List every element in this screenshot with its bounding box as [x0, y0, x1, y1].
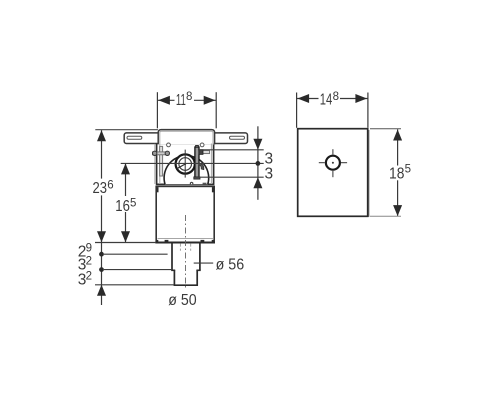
label 2_9: [78, 242, 92, 260]
svg-text:11: 11: [176, 92, 186, 109]
screw hole right: [200, 143, 204, 147]
svg-text:14: 14: [320, 92, 333, 109]
label 3_2 lower: [78, 270, 92, 288]
left bracket strip: [160, 146, 163, 176]
label 3_2 upper: [78, 255, 92, 273]
rail slot right: [230, 136, 245, 139]
plate circle: [326, 156, 340, 170]
bottom corner mark left: [156, 240, 158, 242]
svg-text:23: 23: [93, 180, 108, 197]
box inner bottom line: [158, 237, 213, 239]
tank left outer seam: [154, 144, 156, 184]
svg-text:18: 18: [389, 165, 404, 182]
small block on step: [203, 183, 207, 185]
flush valve outer circle: [176, 154, 195, 173]
svg-text:5: 5: [130, 197, 136, 209]
access plate: [298, 129, 368, 217]
plate top extension lines: [297, 93, 368, 128]
bottom corner mark right: [212, 240, 214, 242]
right dim line 3 upper: [198, 149, 264, 151]
bottom tab left: [165, 240, 169, 242]
dimension line 11_8: [157, 96, 216, 105]
ref line collar top: [95, 129, 158, 131]
plate right extension lines: [370, 129, 401, 217]
svg-text:ø 50: ø 50: [168, 292, 197, 309]
siphon dome: [164, 156, 209, 185]
label 11_8: [176, 91, 193, 109]
svg-text:6: 6: [107, 180, 113, 192]
ref line outlet step: [104, 269, 172, 271]
ref line valve axis: [121, 162, 264, 164]
dimension line 18_5: [393, 129, 402, 216]
label 18_5: [389, 164, 411, 183]
label 16_5: [115, 197, 136, 214]
svg-text:8: 8: [333, 91, 339, 103]
svg-text:5: 5: [405, 164, 411, 176]
box bottom edge bold: [155, 242, 215, 244]
outlet pipe d50: [174, 270, 197, 285]
plate right edge shadow: [368, 130, 370, 217]
wall mounting rail: [124, 133, 247, 144]
cistern collar: [158, 130, 214, 145]
svg-text:8: 8: [186, 91, 192, 103]
bottom tab right: [201, 240, 205, 242]
box corner tab left: [157, 187, 159, 192]
fill valve hook: [199, 163, 204, 169]
fill valve inlet arm: [199, 150, 210, 155]
rail slot left: [127, 136, 142, 139]
dimension chain 3-3: [253, 126, 262, 200]
pipe centerline: [185, 215, 187, 288]
outlet pipe d56: [171, 243, 201, 270]
dimension chain 23_6 / 2_9 / 3_2 / 3_2: [97, 130, 106, 305]
valve crosshair vertical: [184, 150, 186, 178]
label 14_8: [320, 91, 339, 109]
flush valve inner circle: [179, 158, 192, 171]
valve pointer hand: [177, 163, 186, 169]
leader line d56: [194, 262, 214, 264]
dimension line 16_5: [121, 163, 130, 242]
protection box: [156, 186, 214, 242]
right dim line 3 lower: [198, 176, 264, 178]
svg-text:2: 2: [86, 255, 92, 267]
ref line tank bottom: [95, 242, 156, 244]
svg-text:2: 2: [86, 270, 92, 282]
ref line outlet 2_9: [104, 253, 168, 255]
pipe hidden lines: [180, 244, 190, 251]
svg-text:16: 16: [115, 198, 130, 215]
svg-text:ø 56: ø 56: [216, 257, 245, 274]
box corner tab right: [212, 187, 214, 192]
small clip on tank bottom: [190, 182, 192, 184]
ref line pipe end: [95, 284, 174, 286]
fill valve body: [194, 145, 200, 179]
plate crosshair ticks: [319, 149, 347, 177]
screw hole left: [167, 143, 171, 147]
svg-text:9: 9: [86, 242, 92, 254]
fixing bolt through left wall: [153, 151, 170, 155]
svg-text:3: 3: [265, 165, 274, 182]
tank inner lining: [160, 131, 213, 184]
cistern tank body walls: [156, 144, 215, 185]
label 23_6: [93, 180, 114, 197]
dimension line 14_8: [297, 94, 368, 103]
top dimension 11_8 extension lines: [157, 92, 216, 128]
